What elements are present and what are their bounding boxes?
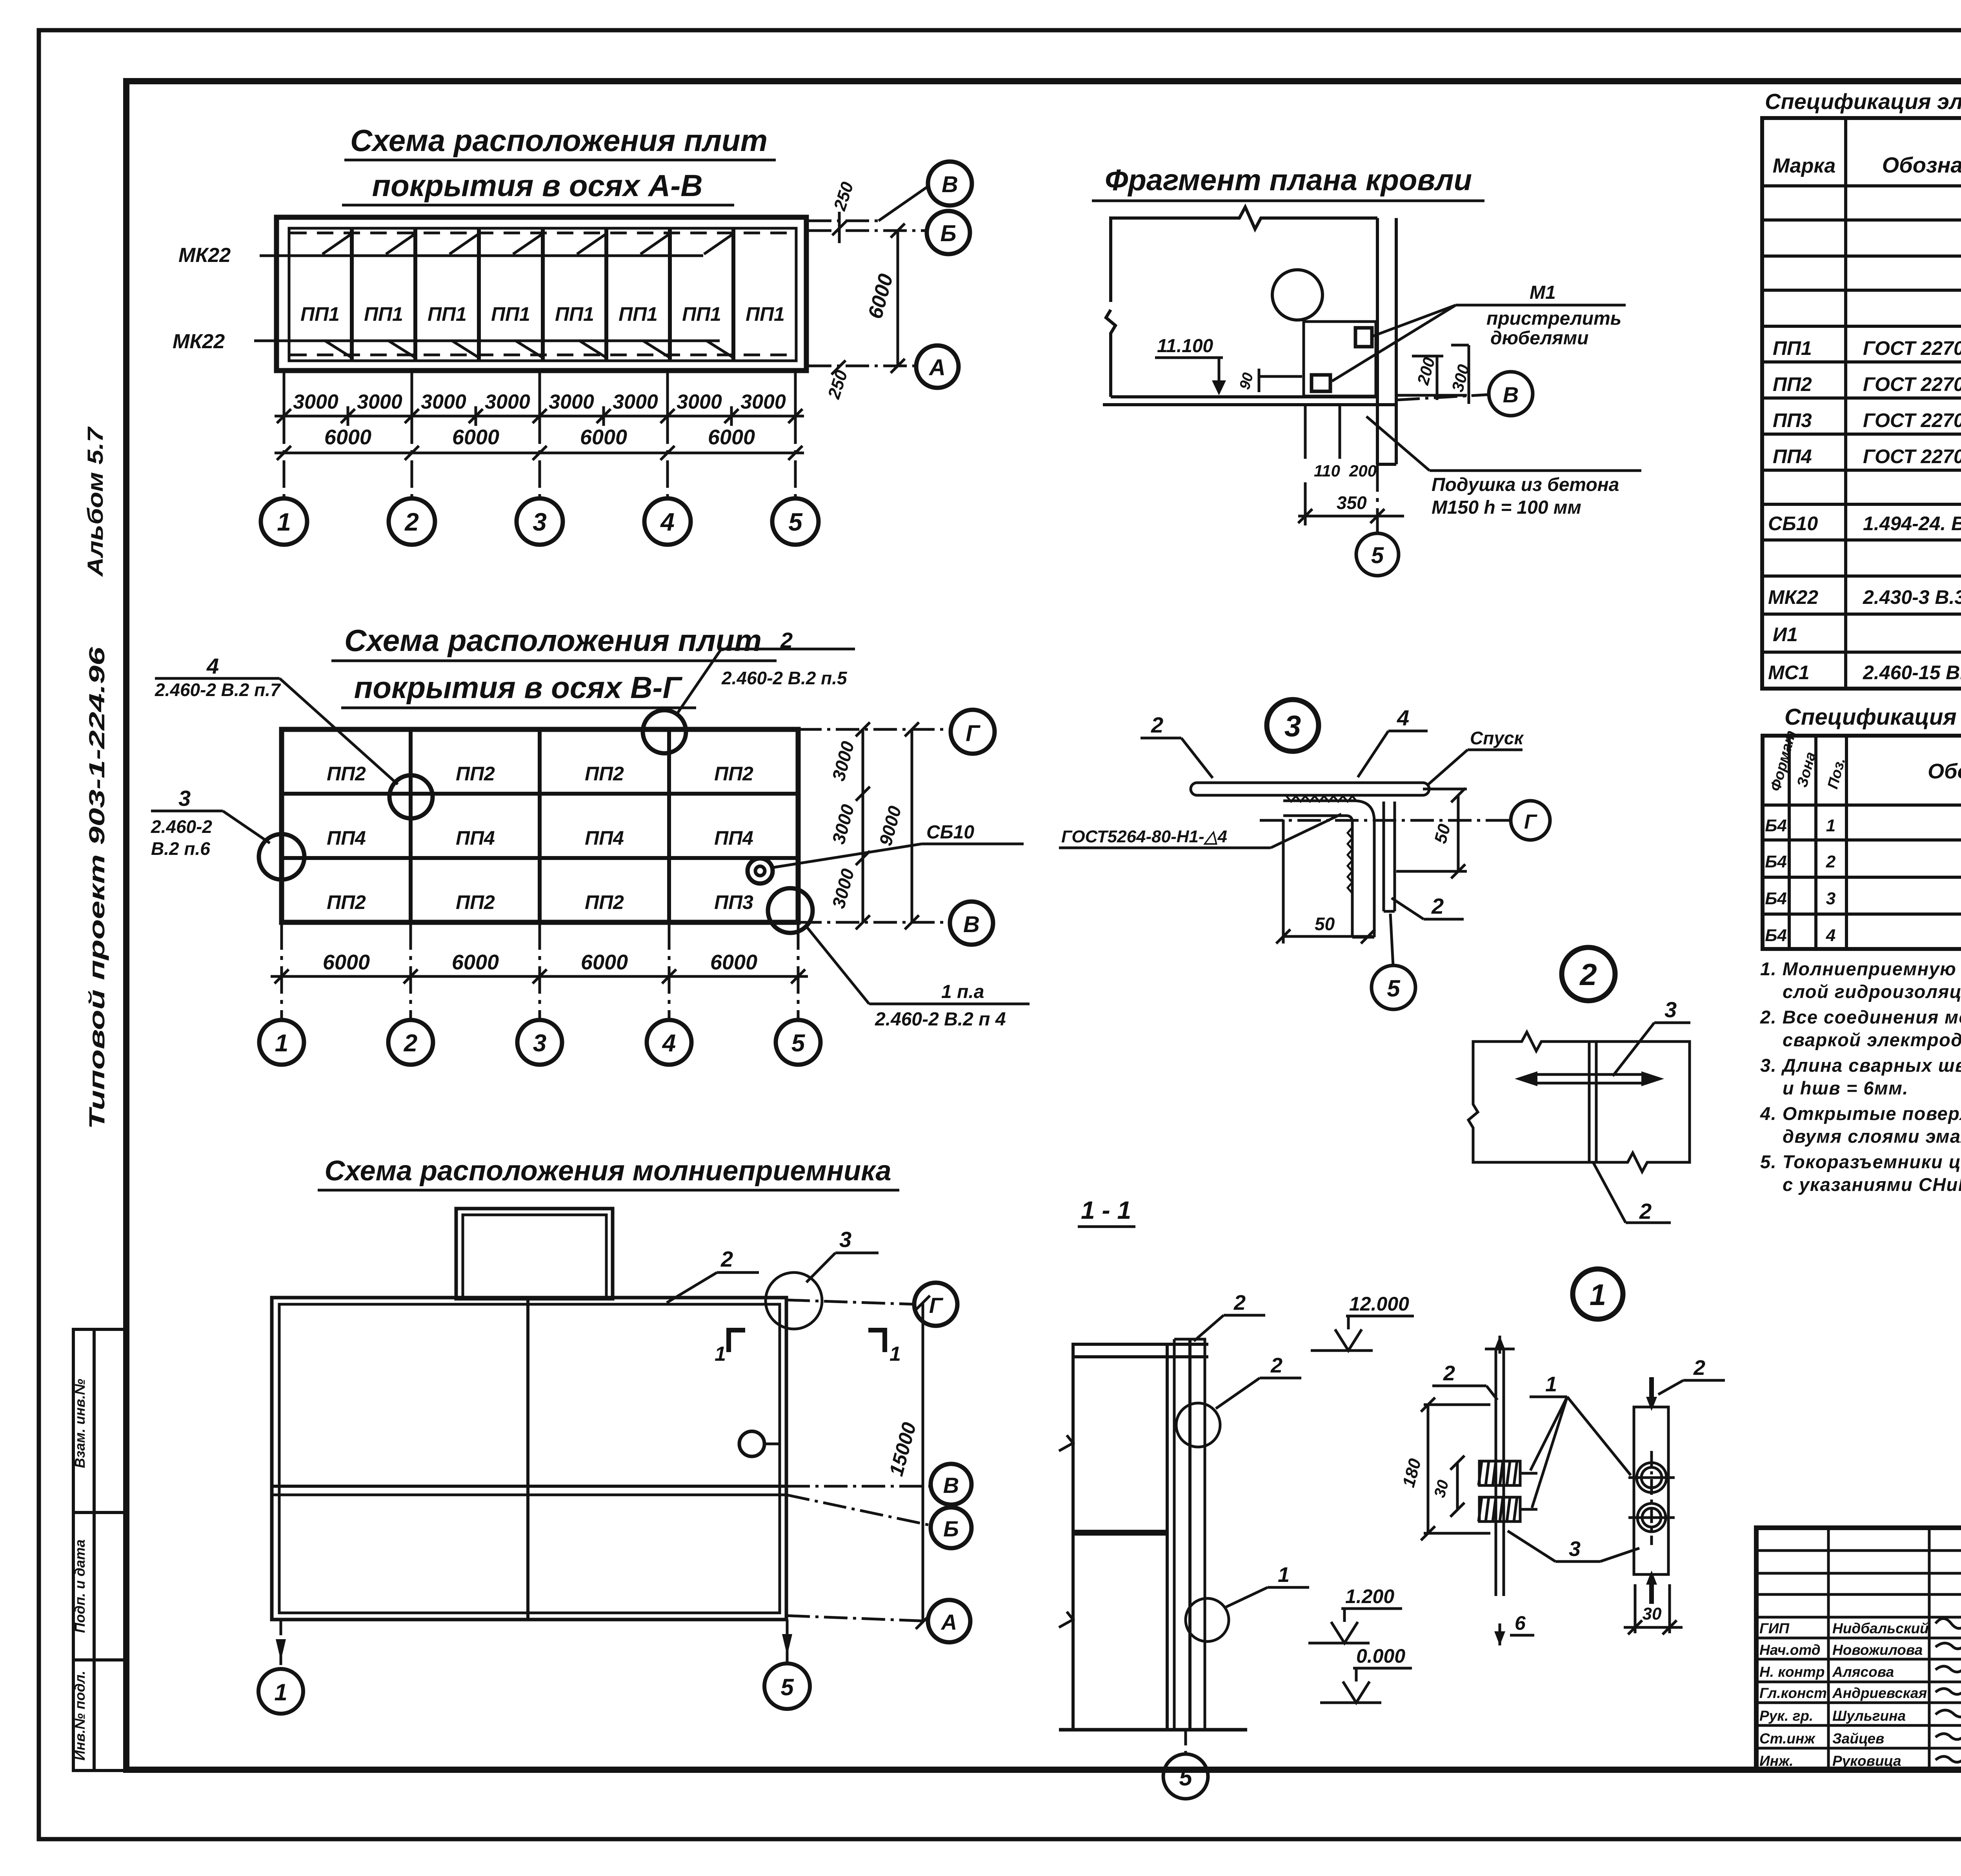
svg-text:4: 4 (1826, 926, 1835, 945)
svg-text:2: 2 (1431, 894, 1444, 918)
roof right wall (1376, 218, 1379, 464)
detail1 bubble (1573, 1269, 1623, 1319)
svg-text:30: 30 (1431, 1478, 1452, 1499)
svg-text:3: 3 (533, 508, 547, 536)
svg-text:3: 3 (839, 1227, 851, 1252)
svg-text:ПП1: ПП1 (746, 303, 785, 325)
svg-text:350: 350 (1337, 493, 1367, 513)
svg-text:4. Открытые поверхности закл: 4. Открытые поверхности закладных детале… (1760, 1103, 1961, 1124)
svg-text:ПП2: ПП2 (585, 763, 624, 785)
svg-text:Г: Г (966, 721, 980, 746)
svg-text:3000: 3000 (740, 391, 786, 413)
scheme1 axis B (top right) (808, 186, 929, 374)
svg-text:Алясова: Алясова (1832, 1664, 1894, 1680)
svg-text:4: 4 (660, 508, 675, 536)
roof concrete pad rect (1304, 322, 1376, 396)
svg-text:12.000: 12.000 (1349, 1293, 1409, 1315)
svg-text:1. Молниеприемную сетку уложи: 1. Молниеприемную сетку уложить по плита… (1760, 958, 1961, 979)
spec2 table grid (1763, 736, 1961, 949)
spec1 table grid (1762, 118, 1961, 689)
svg-text:30: 30 (1643, 1604, 1662, 1623)
svg-text:2: 2 (1639, 1199, 1652, 1223)
svg-text:2.460-15 В.0: 2.460-15 В.0 (1863, 662, 1961, 684)
svg-text:ГОСТ 22701.1-77: ГОСТ 22701.1-77 (1863, 373, 1961, 395)
svg-text:3000: 3000 (613, 391, 658, 413)
svg-text:ГОСТ 22701.1-77: ГОСТ 22701.1-77 (1863, 445, 1961, 467)
svg-text:1 - 1: 1 - 1 (1081, 1196, 1131, 1224)
svg-text:покрытия в осях А-В: покрытия в осях А-В (372, 168, 702, 203)
svg-text:3: 3 (533, 1030, 546, 1057)
svg-text:Б4: Б4 (1765, 926, 1787, 945)
svg-text:200: 200 (1349, 462, 1377, 480)
svg-text:1.494-24. В.1: 1.494-24. В.1 (1863, 513, 1961, 534)
svg-text:ПП4: ПП4 (456, 827, 495, 849)
scheme3 section marks 1-1 (729, 1330, 885, 1352)
svg-text:2.460-2 В.2 п.5: 2.460-2 В.2 п.5 (721, 668, 848, 688)
svg-text:Фрагмент плана кровли: Фрагмент плана кровли (1105, 164, 1472, 197)
svg-text:В: В (1503, 382, 1519, 407)
svg-text:Инв.№ подл.: Инв.№ подл. (72, 1671, 88, 1760)
svg-text:ПП4: ПП4 (714, 827, 753, 849)
svg-text:6000: 6000 (708, 425, 755, 449)
svg-text:М1: М1 (1530, 282, 1556, 303)
svg-text:Взам. инв.№: Взам. инв.№ (72, 1379, 88, 1468)
svg-text:2: 2 (1151, 713, 1163, 737)
scheme3 bottom axis bubbles (281, 1620, 787, 1669)
svg-text:2. Все соединения молниезащит: 2. Все соединения молниезащитных устройс… (1760, 1007, 1961, 1027)
svg-text:2: 2 (1233, 1291, 1246, 1314)
svg-text:ПП2: ПП2 (456, 763, 495, 785)
scheme1 plate dividers (350, 228, 354, 361)
svg-text:3: 3 (178, 786, 191, 811)
section ground line (1059, 1728, 1247, 1732)
svg-text:4: 4 (206, 654, 219, 678)
detail1 dim 30 (1450, 1456, 1464, 1517)
svg-text:6000: 6000 (323, 951, 370, 974)
scheme2 axis bubbles 1-5 (259, 1020, 820, 1065)
svg-text:5: 5 (1179, 1764, 1193, 1791)
svg-text:1: 1 (715, 1343, 726, 1365)
scheme1 MK22 top diagonal marks (322, 234, 733, 358)
roof outline with break marks (1103, 207, 1398, 464)
section node circle lower (1186, 1598, 1229, 1641)
svg-text:ГОСТ 22701.2-77: ГОСТ 22701.2-77 (1863, 409, 1961, 431)
svg-text:Рук. гр.: Рук. гр. (1759, 1708, 1813, 1724)
svg-text:1: 1 (1826, 816, 1835, 835)
svg-text:5: 5 (788, 508, 803, 536)
roof axis 5 bubble (1376, 464, 1379, 533)
scheme1 plan slab outer rect (277, 217, 806, 371)
svg-text:В: В (942, 172, 958, 197)
svg-text:Нидбальский: Нидбальский (1832, 1620, 1929, 1636)
svg-text:ПП2: ПП2 (714, 763, 753, 785)
svg-text:Подп. и дата: Подп. и дата (72, 1540, 88, 1633)
svg-text:250: 250 (824, 368, 851, 402)
detail3 weld dots on vertical (1348, 827, 1352, 893)
svg-text:и hшв = 6мм.: и hшв = 6мм. (1783, 1078, 1908, 1098)
scheme2 right axes Г and B (798, 722, 950, 929)
scheme3 internal column line (526, 1298, 529, 1620)
detail3 bubble (1267, 700, 1319, 751)
svg-text:1.200: 1.200 (1345, 1585, 1394, 1607)
svg-text:СБ10: СБ10 (1768, 513, 1818, 534)
svg-text:ПП4: ПП4 (327, 827, 366, 849)
title block signature rows (1759, 1620, 1929, 1769)
svg-text:180: 180 (1399, 1456, 1425, 1489)
svg-text:2.430-3 В.3: 2.430-3 В.3 (1863, 586, 1961, 608)
detail2 bottom leader 2 (1593, 1162, 1626, 1223)
svg-text:6000: 6000 (452, 951, 499, 974)
svg-text:3: 3 (1284, 710, 1301, 743)
svg-text:дюбелями: дюбелями (1490, 328, 1589, 349)
svg-text:И1: И1 (1773, 624, 1798, 645)
svg-text:Б: Б (940, 221, 956, 246)
scheme3 penthouse rect (456, 1209, 613, 1299)
detail3 weld hatch under bar (1286, 796, 1357, 802)
svg-text:Обозначение: Обозначение (1928, 760, 1961, 783)
svg-text:Подушка из бетона: Подушка из бетона (1432, 474, 1619, 495)
svg-text:6000: 6000 (324, 425, 371, 449)
scheme2 plate labels (327, 763, 753, 913)
svg-text:3000: 3000 (421, 391, 466, 413)
svg-text:ПП2: ПП2 (585, 891, 624, 913)
svg-text:2: 2 (1693, 1356, 1705, 1380)
svg-text:1: 1 (890, 1343, 901, 1365)
svg-text:11.100: 11.100 (1157, 336, 1213, 356)
svg-text:МК22: МК22 (173, 330, 225, 353)
svg-text:3000: 3000 (828, 866, 858, 911)
scheme2 SB10 funnel circle (748, 858, 773, 883)
section downlead conductor lines (1174, 1338, 1205, 1729)
detail3 dim 50 right (1396, 788, 1467, 878)
svg-text:Ст.инж: Ст.инж (1759, 1731, 1815, 1747)
svg-text:ПП1: ПП1 (682, 303, 721, 325)
svg-text:2: 2 (1443, 1362, 1455, 1385)
detail1 side view bolts (1628, 1451, 1675, 1545)
scheme2 grid (282, 729, 798, 922)
svg-text:МС1: МС1 (1768, 662, 1810, 684)
svg-text:1: 1 (1278, 1563, 1290, 1587)
svg-text:М150 h = 100 мм: М150 h = 100 мм (1432, 497, 1581, 518)
svg-text:0.000: 0.000 (1356, 1645, 1405, 1667)
detail3 flat bar (roof mesh rod) (1191, 783, 1429, 795)
svg-text:1: 1 (275, 1030, 288, 1057)
svg-text:Спецификация металла на мол: Спецификация металла на молниеприемник (1785, 704, 1961, 730)
svg-text:3000: 3000 (293, 391, 338, 413)
svg-text:с указаниями СНиПII-28-73*.: с указаниями СНиПII-28-73*. (1783, 1174, 1961, 1195)
svg-text:Новожилова: Новожилова (1832, 1642, 1923, 1658)
scheme3 axis B line double (272, 1485, 786, 1488)
svg-text:250: 250 (830, 180, 857, 213)
svg-text:ПП2: ПП2 (327, 891, 366, 913)
svg-text:ГИП: ГИП (1759, 1620, 1790, 1636)
detail3 angle bracket (1283, 801, 1374, 937)
svg-text:В: В (963, 912, 980, 937)
detail1 dim 180 (1421, 1398, 1490, 1540)
svg-text:3000: 3000 (828, 802, 858, 846)
svg-text:Инж.: Инж. (1759, 1753, 1793, 1769)
svg-text:ГОСТ 22701.1-77: ГОСТ 22701.1-77 (1863, 337, 1961, 359)
svg-text:50: 50 (1431, 822, 1454, 845)
svg-text:Зайцев: Зайцев (1832, 1731, 1884, 1747)
svg-text:1 п.а: 1 п.а (941, 982, 984, 1002)
scheme2 6000 dim chain (271, 969, 808, 983)
scheme1 plan slab inner rect (289, 228, 796, 361)
scheme3 right axis bubbles (786, 1300, 931, 1621)
section node circle upper (1176, 1403, 1220, 1447)
svg-text:3000: 3000 (549, 391, 594, 413)
svg-text:Шульгина: Шульгина (1832, 1708, 1906, 1724)
scheme1 6000 dimension chain (275, 446, 804, 460)
svg-text:ПП4: ПП4 (1773, 445, 1812, 467)
svg-text:2.460-2 В.2 п.7: 2.460-2 В.2 п.7 (155, 680, 281, 700)
scheme3 15000 dim (916, 1296, 930, 1629)
svg-text:Б4: Б4 (1765, 816, 1787, 835)
detail3 axis Г (1260, 819, 1510, 822)
svg-text:Б4: Б4 (1765, 889, 1787, 908)
roof axis B bubble (1396, 394, 1490, 400)
svg-text:Типовой проект 903-1-224.96: Типовой проект 903-1-224.96 (84, 647, 109, 1129)
svg-text:Марка: Марка (1773, 155, 1836, 177)
svg-text:ПП1: ПП1 (618, 303, 658, 325)
svg-text:3. Длина сварных швов должн: 3. Длина сварных швов должна быть не мен… (1760, 1055, 1961, 1076)
svg-text:Схема расположения плит: Схема расположения плит (350, 123, 768, 158)
svg-text:Обозначение: Обозначение (1882, 153, 1961, 177)
detail1 side rod top (1649, 1377, 1654, 1604)
detail1 bolt cluster upper (1479, 1461, 1537, 1485)
svg-text:2: 2 (1579, 957, 1597, 992)
svg-text:3000: 3000 (357, 391, 402, 413)
svg-text:ПП1: ПП1 (364, 303, 403, 325)
svg-text:2: 2 (1826, 852, 1836, 871)
roof M1 element top (1355, 328, 1372, 347)
roof lower wall lines and dims (1305, 405, 1340, 459)
svg-text:ПП4: ПП4 (585, 827, 624, 849)
svg-text:1: 1 (1545, 1372, 1557, 1396)
svg-text:Альбом 5.7: Альбом 5.7 (83, 426, 107, 578)
detail1 bolt cluster lower (1479, 1497, 1537, 1522)
svg-text:6000: 6000 (581, 951, 628, 974)
svg-text:2.460-2: 2.460-2 (151, 816, 212, 837)
detail1 dim 30 bottom (1624, 1584, 1683, 1634)
svg-text:3000: 3000 (677, 391, 722, 413)
detail2 rod with arrows (1533, 1074, 1647, 1083)
detail2 slab with break edges (1468, 1032, 1690, 1172)
svg-text:Г: Г (1524, 811, 1537, 833)
roof drain circle (1272, 270, 1322, 320)
svg-text:Спецификация элементов к схема: Спецификация элементов к схемам располож… (1765, 89, 1961, 114)
svg-text:Н. контр: Н. контр (1759, 1664, 1825, 1680)
svg-text:15000: 15000 (885, 1420, 920, 1478)
detail3 dim 50 bottom (1276, 820, 1375, 943)
svg-text:5: 5 (791, 1030, 806, 1057)
svg-text:А: А (940, 1610, 957, 1634)
svg-text:3: 3 (1569, 1537, 1581, 1561)
svg-text:Б4: Б4 (1765, 852, 1787, 871)
scheme1 3000 dimension chain (275, 396, 804, 426)
detail3 bubble 5 leader (1390, 914, 1393, 965)
svg-text:сваркой электродами типа Э-: сваркой электродами типа Э-42 по ГОСТ 94… (1783, 1029, 1961, 1050)
svg-text:3: 3 (1826, 889, 1835, 908)
left margin stamp table (73, 1329, 126, 1771)
svg-text:ПП3: ПП3 (714, 891, 753, 913)
svg-text:Схема расположения молниепри: Схема расположения молниеприемника (324, 1155, 891, 1187)
scheme1 bubbles B,Б,A (916, 162, 972, 388)
svg-text:Андриевская: Андриевская (1832, 1685, 1927, 1701)
scheme1 bottom dashed joint line (290, 354, 795, 356)
svg-text:ПП1: ПП1 (1773, 337, 1812, 359)
svg-text:6000: 6000 (864, 271, 898, 321)
svg-text:Схема расположения плит: Схема расположения плит (344, 623, 762, 658)
detail1 side view plate (1634, 1407, 1668, 1574)
svg-text:двумя слоями эмали ПФ-115: двумя слоями эмали ПФ-115 по грунтовке Г… (1783, 1126, 1961, 1147)
roof pad callout (1430, 469, 1641, 472)
svg-text:ПП1: ПП1 (427, 303, 467, 325)
svg-text:ПП2: ПП2 (327, 763, 366, 785)
svg-text:В.2 п.6: В.2 п.6 (151, 838, 210, 859)
scheme1 axis bubbles 1-5 (261, 498, 819, 545)
svg-text:В: В (943, 1473, 959, 1498)
scheme1 MK22 bottom diagonal marks (324, 340, 352, 358)
svg-text:2: 2 (720, 1247, 733, 1271)
svg-text:покрытия в осях В-Г: покрытия в осях В-Г (354, 670, 683, 705)
svg-text:2: 2 (1270, 1354, 1282, 1377)
svg-text:ПП3: ПП3 (1773, 409, 1812, 431)
svg-text:Гл.конст: Гл.конст (1759, 1685, 1827, 1701)
svg-text:6000: 6000 (580, 425, 627, 449)
svg-text:ГОСТ5264-80-Н1-△4: ГОСТ5264-80-Н1-△4 (1061, 827, 1227, 846)
svg-text:3000: 3000 (485, 391, 530, 413)
detail1 front view rod (1485, 1336, 1515, 1645)
section roof slab small break (1059, 1435, 1073, 1627)
svg-text:3: 3 (1664, 997, 1677, 1022)
svg-text:6: 6 (1515, 1612, 1526, 1634)
scheme1 PP1 plate labels (300, 303, 785, 325)
section bubble 5 (1184, 1730, 1187, 1754)
svg-text:5: 5 (1371, 543, 1384, 568)
svg-text:3000: 3000 (828, 739, 858, 783)
scheme1 axis lines to bubbles (284, 373, 795, 498)
svg-text:МК22: МК22 (178, 244, 231, 267)
svg-text:1: 1 (1590, 1278, 1606, 1312)
svg-text:Спуск: Спуск (1470, 728, 1524, 748)
svg-text:6000: 6000 (710, 951, 757, 974)
svg-text:ПП2: ПП2 (1773, 373, 1812, 395)
svg-text:6000: 6000 (452, 425, 499, 449)
svg-text:Г: Г (929, 1293, 944, 1318)
detail2 joint vertical lines (1589, 1042, 1596, 1162)
svg-text:А: А (928, 355, 946, 380)
svg-text:4: 4 (662, 1030, 676, 1057)
scheme2 callout circles (259, 710, 813, 933)
svg-text:СБ10: СБ10 (926, 822, 974, 843)
scheme3 downlead circle (739, 1431, 764, 1456)
svg-text:5: 5 (780, 1674, 794, 1700)
svg-text:Нач.отд: Нач.отд (1759, 1642, 1821, 1658)
svg-text:1: 1 (277, 508, 291, 536)
svg-text:90: 90 (1237, 371, 1257, 391)
svg-text:2: 2 (404, 1030, 417, 1057)
svg-text:Руковица: Руковица (1832, 1753, 1901, 1769)
roof M1 element bottom (1312, 375, 1330, 391)
svg-text:2: 2 (404, 508, 419, 536)
section wall panels (1073, 1344, 1208, 1730)
svg-text:МК22: МК22 (1768, 586, 1818, 608)
svg-text:9000: 9000 (875, 803, 905, 848)
svg-text:ПП2: ПП2 (456, 891, 495, 913)
detail3 MC1 plate (1384, 802, 1395, 911)
scheme3 main building outline (272, 1298, 786, 1620)
svg-text:200: 200 (1413, 355, 1439, 387)
svg-text:110: 110 (1314, 462, 1340, 480)
detail2 bubble (1562, 947, 1615, 1001)
svg-text:1: 1 (274, 1679, 287, 1705)
svg-text:ПП1: ПП1 (491, 303, 530, 325)
scheme3 detail circle top right (766, 1272, 822, 1329)
scheme2 axis lines (282, 922, 798, 1020)
svg-text:4: 4 (1397, 705, 1409, 730)
svg-text:Б: Б (943, 1516, 959, 1541)
svg-text:5. Токоразъемники цинковать: 5. Токоразъемники цинковать слоем 150мкм… (1760, 1151, 1961, 1172)
svg-text:50: 50 (1315, 914, 1335, 934)
svg-text:ПП1: ПП1 (555, 303, 594, 325)
svg-text:пристрелить: пристрелить (1486, 308, 1621, 329)
svg-text:слой гидроизоляции.: слой гидроизоляции. (1783, 981, 1961, 1002)
title block signatures squiggles (1936, 1619, 1961, 1762)
svg-text:5: 5 (1387, 975, 1401, 1002)
svg-text:2.460-2 В.2 п 4: 2.460-2 В.2 п 4 (875, 1009, 1006, 1030)
svg-text:ПП1: ПП1 (300, 303, 340, 325)
scheme1 top dashed joint line (290, 232, 795, 234)
